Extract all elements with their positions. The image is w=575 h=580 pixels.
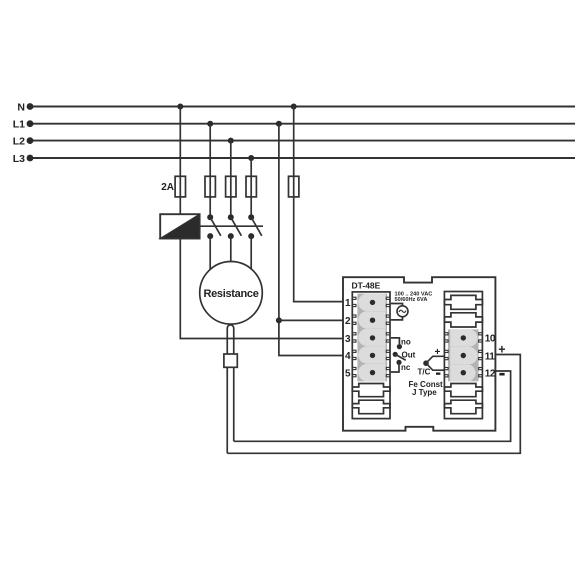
- wire N to fuse F4: [293, 107, 295, 177]
- node N-tap for controller: [291, 104, 297, 110]
- svg-text:2: 2: [345, 316, 351, 327]
- wire L2 to fuse F2: [230, 141, 232, 177]
- terminal 4: [345, 346, 386, 363]
- right block empty position bottom 1: [444, 384, 482, 397]
- svg-text:+: +: [435, 347, 441, 358]
- fuse F2: [226, 176, 236, 197]
- left terminal block: [352, 292, 390, 419]
- terminal 3: [345, 329, 386, 346]
- wire L3 to fuse F3: [250, 158, 252, 176]
- terminal 11: [450, 347, 495, 364]
- AC source symbol: [391, 304, 408, 320]
- svg-text:10: 10: [485, 334, 496, 345]
- wire fuse F4 to controller terminal 1: [294, 197, 343, 302]
- fuse F4: [289, 176, 299, 197]
- svg-text:1: 1: [345, 298, 351, 309]
- bus L2: [13, 135, 575, 147]
- wire TC minus to controller: [234, 371, 511, 441]
- wire N to fuse 2A: [179, 107, 181, 177]
- wire fuse F2 to contact: [230, 197, 232, 217]
- svg-text:Out: Out: [402, 350, 416, 359]
- terminal 2: [345, 311, 386, 328]
- fuse F1: [205, 176, 215, 197]
- svg-text:4: 4: [345, 351, 351, 362]
- svg-text:50/60Hz 6VA: 50/60Hz 6VA: [395, 297, 428, 303]
- wire coil to elbow, to controller terminal 3: [180, 239, 343, 339]
- resistance heater R1: [200, 262, 263, 325]
- bus L1: [13, 119, 575, 131]
- svg-text:Resistance: Resistance: [203, 288, 258, 300]
- left block edge clamp slots: [353, 297, 390, 377]
- svg-text:L3: L3: [13, 153, 25, 165]
- terminal 12: [450, 364, 496, 381]
- contact linkage bar: [200, 225, 263, 227]
- node L2-tap for contact 2: [228, 138, 234, 144]
- bus N: [17, 101, 575, 113]
- terminal 1: [345, 294, 386, 311]
- contact K1-2: [228, 214, 242, 262]
- contactor K1 coil: [160, 214, 199, 238]
- minus label right: [499, 373, 504, 376]
- svg-text:12: 12: [485, 369, 496, 380]
- terminal 5: [345, 364, 386, 381]
- svg-text:+: +: [498, 343, 505, 357]
- wire L1 to fuse F1: [209, 124, 211, 177]
- fuse F3: [246, 176, 256, 197]
- wire branch to terminal 2: [279, 319, 343, 321]
- left block empty position 1: [352, 384, 390, 397]
- wire TC plus to controller: [227, 355, 520, 454]
- terminal 10: [450, 329, 496, 346]
- relay nc contact: [391, 360, 411, 372]
- svg-text:L2: L2: [13, 135, 25, 147]
- contact K1-3: [248, 214, 262, 270]
- right block edge clamp slots: [445, 333, 482, 377]
- svg-text:L1: L1: [13, 119, 25, 131]
- contact K1-1: [207, 214, 221, 270]
- thermocouple probe: [227, 325, 234, 453]
- relay no contact: [391, 337, 411, 349]
- relay common Out: [393, 350, 416, 360]
- node branch to terminal 2: [276, 317, 282, 323]
- svg-text:5: 5: [345, 368, 351, 379]
- wire fuse F1 to contact: [209, 197, 211, 217]
- thermocouple input symbol T/C: [418, 347, 445, 377]
- svg-text:nc: nc: [401, 363, 411, 372]
- left block empty position 2: [352, 400, 390, 414]
- node L1-tap for contact 1: [207, 121, 213, 127]
- svg-text:DT-48E: DT-48E: [352, 280, 381, 290]
- wire fuse 2A to coil: [179, 197, 181, 214]
- node L1-tap for controller: [276, 121, 282, 127]
- svg-text:T/C: T/C: [418, 368, 431, 377]
- wire fuse F3 to contact: [250, 197, 252, 217]
- svg-text:11: 11: [485, 351, 496, 362]
- svg-text:no: no: [401, 337, 411, 346]
- svg-text:N: N: [17, 101, 25, 113]
- probe coupler: [224, 354, 237, 367]
- node L3-tap for contact 3: [248, 155, 254, 161]
- bus L3: [13, 153, 575, 165]
- node N-tap for coil: [177, 104, 183, 110]
- right block empty position top 2: [444, 313, 482, 327]
- svg-text:2A: 2A: [161, 182, 174, 193]
- right block empty position bottom 2: [444, 400, 482, 414]
- right terminal block: [444, 292, 482, 419]
- svg-text:J Type: J Type: [412, 388, 437, 397]
- controller U1 outer case: [343, 277, 495, 431]
- wire L1 to controller terminal 2 and 4: [279, 124, 343, 356]
- svg-text:3: 3: [345, 334, 351, 345]
- fuse 2A: [161, 176, 185, 197]
- right block empty position top 1: [444, 295, 482, 309]
